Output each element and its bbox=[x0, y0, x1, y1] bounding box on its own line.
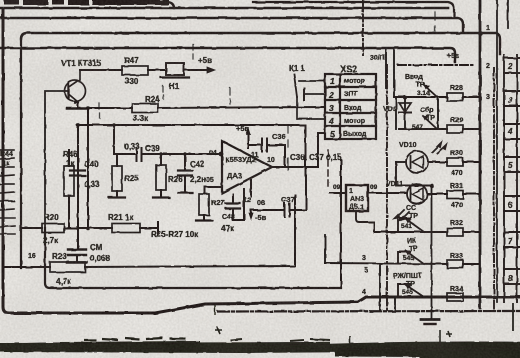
wire x88 vertical bbox=[87, 108, 89, 229]
right bus x497 bbox=[496, 0, 498, 302]
diode VD9 bbox=[404, 97, 406, 129]
wire IK common down bbox=[379, 264, 381, 310]
top heavy bar segments bbox=[4, 0, 169, 5]
wire L3 y=33 bbox=[21, 33, 500, 54]
wire emitter down to stub bbox=[77, 103, 79, 107]
capacitor C42 bbox=[184, 154, 186, 170]
chain line vertical x387 bbox=[386, 65, 388, 310]
wire x305 down to output bbox=[304, 125, 306, 167]
wire row5 output up bbox=[318, 132, 325, 134]
wire y288 row bbox=[45, 228, 341, 288]
right bus x480 bbox=[479, 0, 482, 308]
node on bus x480 bbox=[478, 31, 483, 36]
left frame vertical x=21 bbox=[20, 39, 22, 268]
left comb ticks bbox=[0, 150, 15, 234]
wire VD10-VD11 bracket bbox=[396, 162, 404, 186]
wire RJ common down bbox=[394, 297, 396, 310]
chain line top y64 bbox=[398, 64, 474, 66]
stub x508 bbox=[507, 0, 509, 28]
wire base to left and down bbox=[45, 91, 69, 228]
output wire 10 bbox=[272, 133, 325, 167]
wire top edge line y=2 bbox=[253, 2, 454, 16]
chain line vertical x494 bbox=[493, 68, 495, 310]
wire R47 to H1 bbox=[148, 69, 166, 71]
wire VD10 row bbox=[396, 161, 406, 163]
wire right loop x438 bbox=[437, 97, 439, 129]
wire AH3 bottom hook bbox=[356, 211, 374, 232]
terminal row2 bbox=[304, 93, 325, 95]
wire x114 down to input row bbox=[113, 125, 115, 154]
resistor R21 bbox=[112, 224, 140, 233]
ground bbox=[431, 186, 433, 319]
pin 12 -5v bbox=[250, 180, 252, 196]
capacitor C40 bbox=[70, 169, 85, 171]
wire 30P verticals bbox=[385, 48, 387, 88]
chain line bottom y311 bbox=[218, 310, 520, 313]
right edge pin numbers bbox=[507, 62, 513, 283]
resistor R23 bbox=[50, 262, 85, 272]
resistor R24 bbox=[132, 104, 158, 113]
jumper H1 bbox=[166, 63, 184, 75]
wire LED link y187 bbox=[404, 185, 432, 187]
resistor R27 vertical bbox=[199, 194, 209, 215]
top bar rounded end bbox=[168, 2, 174, 8]
wire C37 row bbox=[251, 209, 284, 211]
capacitor C39 series bbox=[136, 148, 138, 161]
transistor VT1 bbox=[65, 81, 86, 102]
wire R24 feedback line y=108 bbox=[88, 107, 132, 109]
LED VD11 bbox=[407, 184, 427, 204]
XS2 pin numbers bbox=[328, 76, 335, 139]
bottom dark band bbox=[0, 303, 520, 357]
Kn1 switch wires bbox=[299, 80, 325, 82]
resistor R46 vertical bbox=[64, 166, 74, 196]
wire R29 row bbox=[399, 128, 447, 130]
wire 05 input bbox=[205, 186, 222, 188]
op-amp U DA3 triangle bbox=[222, 141, 272, 193]
junk marks above band bbox=[84, 338, 186, 340]
wire y228 row bbox=[22, 227, 42, 229]
wire left loop x396 bbox=[395, 97, 397, 129]
wire L4 y=48 bbox=[0, 48, 455, 62]
wire row5 down dashes bbox=[327, 150, 329, 188]
LED VD10 bbox=[406, 151, 428, 173]
chain line vertical x363 bbox=[362, 0, 364, 55]
emitter ground stub bbox=[67, 107, 88, 110]
IK TR switch bbox=[398, 252, 410, 263]
wire collector to R47 bbox=[80, 69, 122, 71]
RJ TR switch bbox=[398, 284, 410, 297]
resistor R25 vertical bbox=[116, 154, 118, 166]
right edge connector bbox=[504, 55, 520, 302]
pin 11 +5v bbox=[247, 131, 249, 148]
wire y290 bbox=[340, 160, 342, 288]
Sbr TR switch bbox=[423, 116, 436, 128]
stray scan dashes bbox=[99, 12, 435, 170]
capacitor C41 bbox=[68, 248, 86, 250]
XS2 connector table bbox=[325, 74, 376, 139]
capacitor C43 bbox=[226, 202, 240, 204]
wire y266 R23 row bbox=[3, 266, 50, 268]
node dot 04 bbox=[219, 152, 224, 157]
resistor R47 bbox=[122, 66, 148, 75]
junction dots bbox=[86, 106, 90, 110]
XS2 row labels bbox=[343, 78, 367, 138]
C41 ground bar bbox=[67, 261, 87, 264]
wire input row y=154 bbox=[114, 153, 136, 155]
wire VD11 row bbox=[368, 192, 406, 194]
wire C36 row bbox=[248, 144, 262, 146]
wire y=125 bus bbox=[78, 124, 305, 126]
CC TR switch bbox=[398, 218, 410, 232]
Vvod TR switch bbox=[424, 85, 436, 96]
wire H1 to +5v arrow bbox=[184, 69, 208, 71]
resistor R28 bbox=[447, 93, 463, 101]
wire L2 y=18 bbox=[0, 18, 463, 31]
AH3 box bbox=[346, 185, 368, 211]
resistor R20 bbox=[42, 224, 64, 233]
wire x78 column C40 C41 bbox=[77, 125, 79, 249]
resistor R26 vertical bbox=[160, 154, 162, 165]
wire L1 y=8 bbox=[0, 7, 448, 10]
